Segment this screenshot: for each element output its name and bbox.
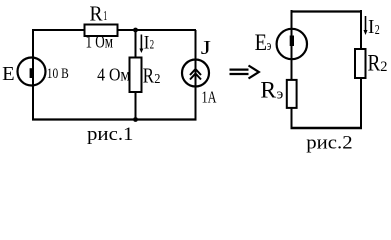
wire bottom (fig2) [291,127,363,130]
svg-text:рис.1: рис.1 [87,124,134,145]
J chevron upper [190,69,201,75]
voltage source E circle [18,58,46,86]
wire middle branch (fig1) [135,30,137,120]
wire right (fig2) [360,10,362,128]
svg-text:2: 2 [380,59,387,75]
svg-text:э: э [277,86,284,102]
wire right (fig1) [195,30,197,120]
svg-text:4 Ом: 4 Ом [97,65,130,85]
label R2 (fig2) [368,51,388,77]
label Rэ [260,78,283,103]
label R1 [90,1,108,25]
wire top (fig1) [33,29,196,31]
svg-text:E: E [2,64,15,85]
resistor Rэ [287,80,297,108]
wire left (fig2) [291,10,293,128]
svg-text:R: R [90,1,103,25]
current source J circle [182,60,209,87]
svg-text:2: 2 [154,71,160,86]
wire top (fig2) [292,10,362,12]
svg-text:J: J [201,37,211,59]
wire bottom (fig1) [32,118,197,120]
svg-text:I: I [144,32,150,53]
voltage source Eэ circle [277,29,307,59]
svg-text:E: E [255,30,267,55]
implication arrow => [230,66,259,79]
Eэ source arrow [290,36,294,47]
svg-text:1: 1 [103,9,107,24]
E source arrow [30,68,34,78]
resistor R1 [85,25,118,37]
label I2 (fig1) [144,32,154,53]
current arrow I2 (fig2) [364,16,368,35]
svg-text:э: э [267,38,272,54]
resistor R2 (fig1) [130,58,142,93]
svg-text:R: R [368,51,381,77]
label I2 (fig2) [368,16,380,38]
label R2 (fig1) [143,64,161,88]
svg-text:2: 2 [150,37,155,52]
label Eэ [255,30,272,55]
current arrow I2 (fig1) [139,35,143,54]
svg-text:1 Ом: 1 Ом [86,32,114,52]
svg-text:2: 2 [375,23,380,38]
svg-text:рис.2: рис.2 [306,133,352,154]
svg-text:10 В: 10 В [47,66,69,82]
node bottom junction dot [133,117,138,122]
svg-text:I: I [368,16,374,38]
svg-text:R: R [260,78,276,103]
node top junction dot [133,28,138,33]
svg-text:1А: 1А [202,88,217,107]
resistor R2 (fig2) [355,49,366,78]
svg-text:R: R [143,64,154,88]
J chevron lower [190,74,201,80]
wire left (fig1) [32,29,34,120]
